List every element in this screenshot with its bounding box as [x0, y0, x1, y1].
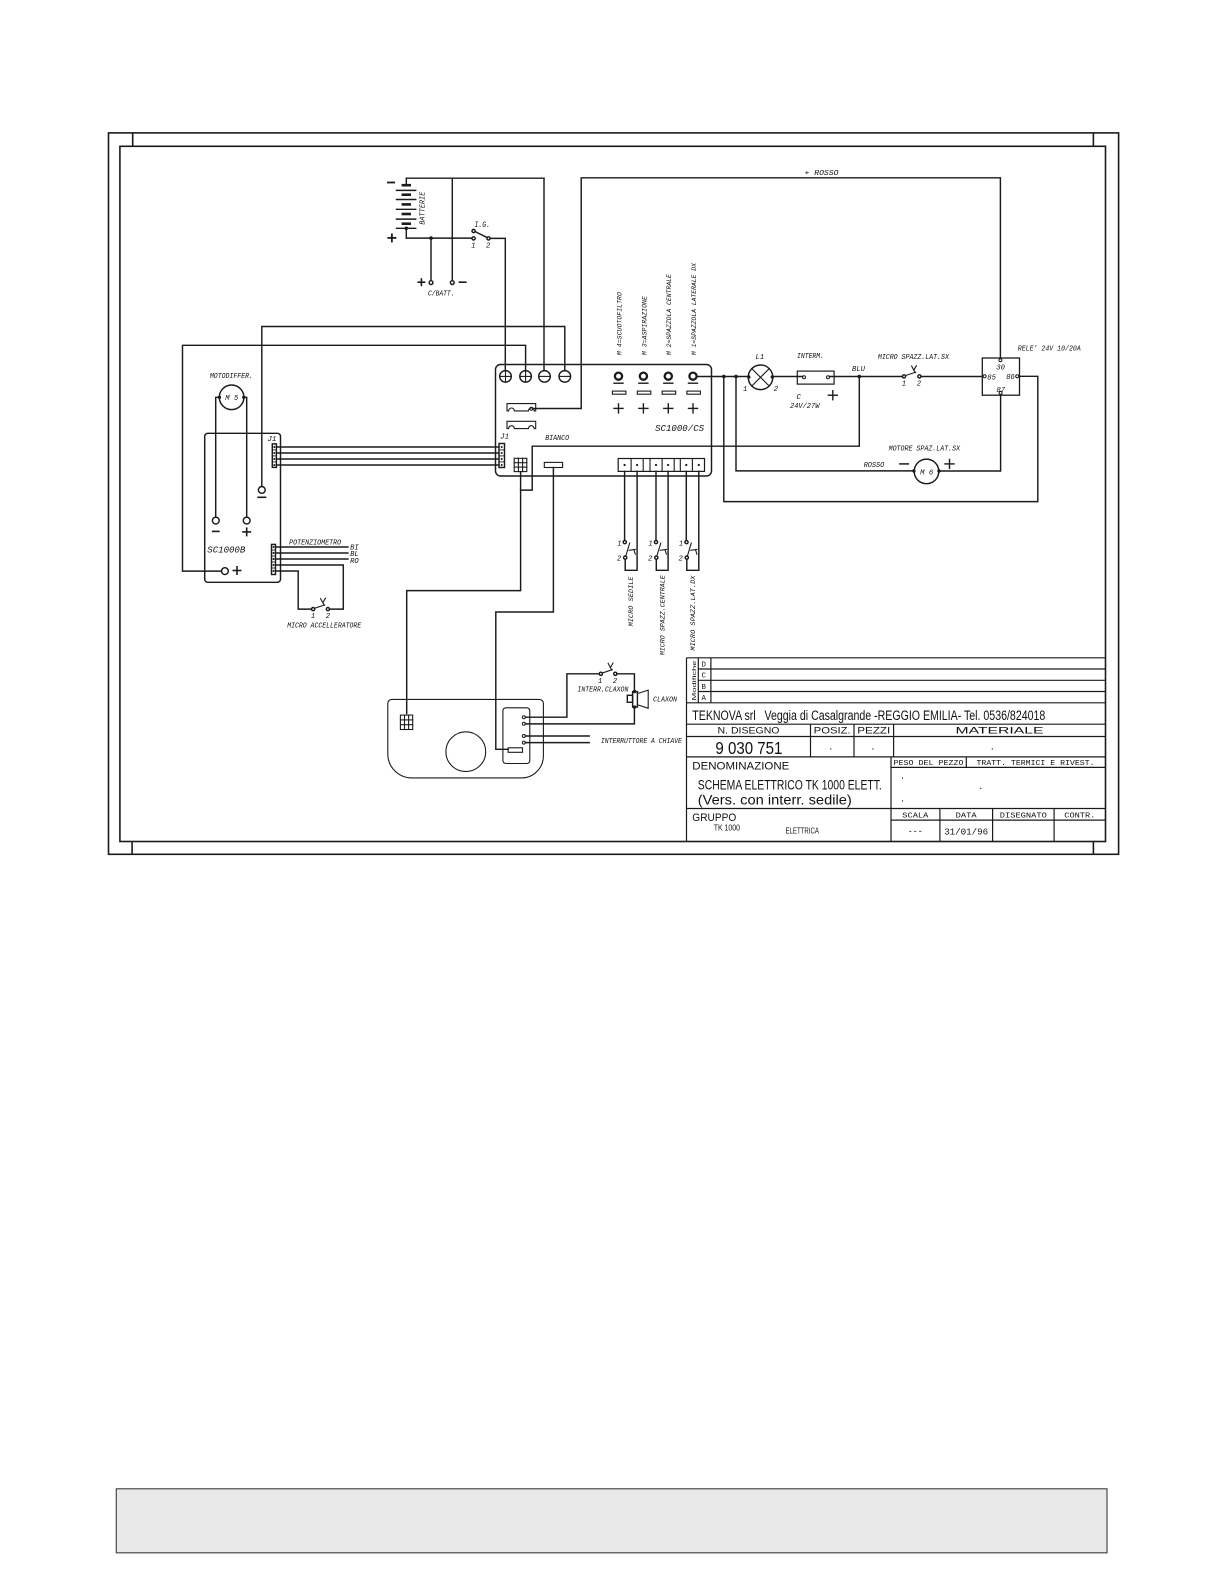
wire L1 to INTERM	[774, 376, 803, 378]
svg-text:.: .	[991, 741, 994, 753]
svg-text:PESO DEL PEZZO: PESO DEL PEZZO	[894, 760, 965, 768]
wire M1 output to relay branch	[697, 376, 748, 378]
wire M5 right to plus input	[244, 397, 247, 517]
terminal minus upper inside SC1000B	[257, 487, 266, 498]
switch I.G.	[471, 222, 491, 251]
fuse F2	[507, 421, 536, 428]
svg-text:TEKNOVA srl Veggia di Casalg: TEKNOVA srl Veggia di Casalgrande -REGGI…	[692, 708, 1045, 723]
wire micro spazz lat dx pin2 loop to strip6	[687, 471, 699, 570]
wire claxon return to key pin2	[525, 707, 634, 724]
wire key pin1 to interr claxon	[525, 674, 599, 717]
wire minus down to terminal 3	[543, 178, 545, 371]
wire key pin3 stub	[525, 735, 589, 737]
wire claxon feed	[617, 674, 635, 692]
svg-text:D: D	[702, 661, 707, 669]
svg-text:A: A	[702, 695, 707, 703]
svg-text:---: ---	[908, 827, 923, 837]
wire C/BATT minus drop	[451, 178, 453, 281]
svg-text:.: .	[871, 741, 874, 753]
svg-text:SCALA: SCALA	[902, 812, 929, 820]
terminal minus inside SC1000B	[212, 517, 220, 531]
motor output M3 ASPIRAZIONE	[637, 296, 651, 413]
node junction 86 feed	[722, 375, 726, 379]
svg-text:2: 2	[617, 556, 622, 564]
svg-text:9 030 751: 9 030 751	[715, 738, 782, 758]
svg-text:RO: RO	[350, 558, 359, 566]
wire relay 87 to M6 plus	[941, 395, 1000, 471]
connector POTENZIOMETRO on SC1000B	[272, 540, 342, 575]
svg-text:M 3=ASPIRAZIONE: M 3=ASPIRAZIONE	[641, 296, 648, 355]
svg-text:(Vers. con interr. sedile): (Vers. con interr. sedile)	[698, 792, 852, 807]
svg-text:1: 1	[648, 540, 652, 548]
svg-text:2: 2	[486, 243, 491, 251]
svg-text:SC1000/CS: SC1000/CS	[655, 423, 704, 434]
gray footer bar	[116, 1489, 1107, 1553]
switch MICRO SEDILE	[617, 540, 636, 626]
terminal plus inside SC1000B	[242, 517, 251, 536]
svg-text:.: .	[901, 770, 904, 782]
wire battery minus top rail	[406, 177, 544, 179]
svg-text:M 6: M 6	[920, 469, 934, 477]
svg-text:31/01/96: 31/01/96	[944, 826, 988, 837]
svg-text:BIANCO: BIANCO	[545, 435, 570, 443]
svg-text:DISEGNATO: DISEGNATO	[1000, 812, 1048, 820]
wire BLU to BIANCO run	[407, 377, 860, 714]
switch MICRO SPAZZ.CENTRALE	[648, 540, 667, 655]
svg-text:.: .	[901, 793, 904, 805]
svg-text:1: 1	[471, 243, 475, 251]
svg-text:C/BATT.: C/BATT.	[428, 290, 455, 298]
lamp L1	[743, 354, 779, 394]
svg-text:30: 30	[996, 364, 1005, 372]
svg-text:1: 1	[679, 540, 683, 548]
wire strip5 to micro spazz lat dx pin1	[685, 471, 687, 540]
connector strip low-level outputs	[618, 459, 704, 472]
svg-text:1: 1	[743, 386, 747, 394]
svg-text:85: 85	[987, 375, 996, 383]
wire J1 bus 3	[276, 458, 499, 460]
svg-text:ROSSO: ROSSO	[864, 462, 885, 470]
svg-text:M 5: M 5	[225, 395, 239, 403]
wire key pin4 stub	[525, 742, 589, 744]
wire micro spazz centrale pin2 loop to strip4	[656, 471, 668, 570]
svg-text:GRUPPO: GRUPPO	[692, 812, 736, 824]
svg-text:CLAXON: CLAXON	[653, 697, 678, 705]
svg-text:Modifiche: Modifiche	[692, 660, 698, 700]
svg-text:PEZZI: PEZZI	[857, 726, 890, 736]
switch MICRO SPAZZ.LAT.DX	[679, 540, 698, 650]
svg-text:MICRO SPAZZ.CENTRALE: MICRO SPAZZ.CENTRALE	[659, 574, 667, 655]
svg-text:I.G.: I.G.	[475, 222, 491, 230]
svg-text:C: C	[702, 673, 707, 681]
svg-text:TK 1000: TK 1000	[714, 824, 741, 833]
svg-text:BLU: BLU	[852, 366, 866, 374]
svg-text:INTERM.: INTERM.	[797, 353, 824, 361]
wire relay 86 loop to +24 junction	[724, 376, 1038, 501]
svg-text:+ ROSSO: + ROSSO	[805, 170, 840, 178]
connector J1 on SC1000B	[268, 436, 277, 468]
node battery plus / C-BATT	[429, 236, 433, 240]
svg-text:DATA: DATA	[956, 812, 978, 820]
svg-text:MICRO SPAZZ.LAT.SX: MICRO SPAZZ.LAT.SX	[878, 354, 950, 362]
svg-text:ELETTRICA: ELETTRICA	[786, 827, 820, 836]
relay RELE 24V 10/20A	[982, 346, 1081, 396]
wire BI	[276, 546, 348, 548]
key line connector block	[544, 462, 562, 467]
svg-text:J1: J1	[268, 436, 277, 444]
wire C/BATT plus drop	[430, 238, 432, 281]
wire strip3 to micro spazz centrale pin1	[655, 471, 657, 540]
SECTION:FRAME	[109, 133, 1119, 854]
wire grid block drop	[520, 472, 522, 491]
horn CLAXON	[627, 690, 677, 709]
svg-text:2: 2	[917, 381, 922, 389]
svg-text:M 1=SPAZZOLA LATERALE DX: M 1=SPAZZOLA LATERALE DX	[691, 262, 698, 355]
connector J1 on SC1000/CS	[499, 434, 509, 468]
svg-text:2: 2	[679, 556, 684, 564]
terminal plus bottom inside SC1000B	[222, 566, 242, 575]
switch MICRO ACCELLERATORE	[287, 598, 362, 630]
node junction rosso feed	[734, 375, 738, 379]
wire key block drop	[496, 468, 554, 750]
svg-text:1: 1	[311, 613, 315, 621]
battery BATTERIE	[387, 178, 427, 242]
svg-text:1: 1	[902, 381, 906, 389]
machine body outline	[388, 699, 544, 778]
wire strip1 to micro sedile pin1	[624, 471, 626, 540]
svg-text:B: B	[702, 684, 707, 692]
svg-text:J1: J1	[500, 434, 509, 442]
wire +ROSSO top rail from fuse to relay 30	[534, 178, 1001, 409]
switch INTERR.CLAXON	[577, 663, 629, 694]
connector C/BATT terminals	[417, 278, 466, 298]
svg-text:86: 86	[1006, 374, 1015, 382]
svg-text:MICRO SPAZZ.LAT.DX: MICRO SPAZZ.LAT.DX	[690, 575, 698, 651]
svg-text:.: .	[979, 780, 982, 792]
motor output M1 SPAZZOLA LATERALE DX	[687, 262, 701, 413]
wire M5 left to minus input	[216, 397, 220, 517]
wire I.G. to terminal 1	[490, 238, 505, 370]
svg-text:1: 1	[617, 540, 621, 548]
switch MICRO SPAZZ.LAT.SX	[878, 354, 950, 389]
motor output M4 SCUOTOFILTRO	[612, 292, 626, 413]
svg-text:MATERIALE: MATERIALE	[956, 726, 1044, 736]
svg-text:POSIZ.: POSIZ.	[814, 726, 851, 736]
svg-text:RELE' 24V 10/20A: RELE' 24V 10/20A	[1018, 346, 1081, 354]
fuse F1	[507, 404, 536, 411]
wire RO	[276, 558, 348, 560]
wire J1 bus 2	[276, 452, 499, 454]
svg-text:MOTORE SPAZ.LAT.SX: MOTORE SPAZ.LAT.SX	[889, 445, 961, 453]
wire BL	[276, 552, 348, 554]
svg-text:CONTR.: CONTR.	[1064, 812, 1095, 820]
steering circle on machine	[446, 732, 486, 772]
svg-text:MOTODIFFER.: MOTODIFFER.	[210, 373, 253, 381]
wire J1 bus 1	[276, 446, 499, 448]
wire battery plus to I.G.	[406, 237, 472, 239]
svg-text:MICRO SEDILE: MICRO SEDILE	[628, 575, 636, 626]
screw terminal 4 minus	[559, 371, 571, 383]
svg-text:2: 2	[648, 556, 653, 564]
wire terminal4 to SC1000B minus	[262, 327, 565, 487]
svg-text:2: 2	[326, 613, 331, 621]
svg-text:2: 2	[613, 678, 618, 686]
wire pot pin5 to micro acc pin1	[276, 571, 312, 609]
SECTION:TITLEBLOCK	[687, 658, 1106, 842]
node BLU junction	[858, 375, 862, 379]
svg-text:C: C	[797, 394, 802, 402]
node grid connector on SC1000/CS	[514, 458, 527, 471]
svg-text:1: 1	[598, 678, 602, 686]
wire ROSSO junction to M6	[736, 377, 912, 471]
svg-text:2: 2	[774, 386, 779, 394]
screw terminal 3 minus	[539, 371, 551, 383]
svg-text:TRATT. TERMICI E RIVEST.: TRATT. TERMICI E RIVEST.	[977, 760, 1095, 768]
svg-text:SC1000B: SC1000B	[207, 545, 245, 556]
svg-text:SCHEMA ELETTRICO TK 1000 ELETT: SCHEMA ELETTRICO TK 1000 ELETT.	[698, 778, 882, 793]
controller SC1000B	[205, 433, 281, 582]
wire left rail terminal2 to SC1000B plus	[183, 345, 526, 571]
motor M5 MOTODIFFER.	[210, 373, 253, 409]
svg-text:M 4=SCUOTOFILTRO: M 4=SCUOTOFILTRO	[617, 292, 624, 355]
wire micro to relay 85	[921, 376, 982, 378]
svg-text:M 2=SPAZZOLA CENTRALE: M 2=SPAZZOLA CENTRALE	[666, 274, 673, 355]
svg-text:INTERR.CLAXON: INTERR.CLAXON	[577, 686, 629, 694]
wire J1 bus 4	[276, 464, 499, 466]
svg-text:MICRO ACCELLERATORE: MICRO ACCELLERATORE	[287, 623, 362, 631]
svg-text:N. DISEGNO: N. DISEGNO	[718, 726, 780, 736]
svg-text:87: 87	[997, 387, 1006, 395]
svg-text:INTERRUTTORE A CHIAVE: INTERRUTTORE A CHIAVE	[601, 738, 683, 746]
svg-text:24V/27W: 24V/27W	[790, 403, 820, 411]
svg-text:DENOMINAZIONE: DENOMINAZIONE	[692, 760, 789, 772]
motor output M2 SPAZZOLA CENTRALE	[662, 274, 676, 413]
wire micro sedile pin2 loop to strip2	[625, 471, 637, 570]
svg-text:BATTERIE: BATTERIE	[420, 191, 428, 225]
screw terminal 2 plus	[520, 371, 532, 383]
controller SC1000/CS	[496, 365, 712, 477]
flasher INTERM.	[790, 353, 837, 411]
wire pot pin4 to micro acc pin2	[276, 565, 344, 609]
screw terminal 1 plus	[500, 371, 512, 383]
wire INTERM to micro switch	[830, 376, 903, 378]
node grid connector on machine	[400, 715, 412, 729]
key switch panel	[503, 708, 530, 764]
svg-text:.: .	[829, 741, 832, 753]
motor M6 MOTORE SPAZZ.LAT.SX	[889, 445, 961, 483]
svg-text:L1: L1	[756, 354, 765, 362]
